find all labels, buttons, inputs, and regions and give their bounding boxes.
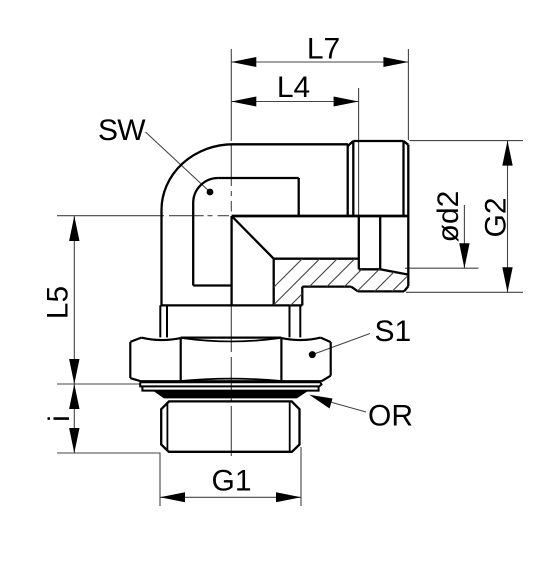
bottom edge	[141, 380, 322, 382]
retaining ring	[142, 386, 318, 390]
dimension L7	[231, 33, 408, 68]
svg-text:L7: L7	[307, 33, 340, 66]
extension line x=160 (G1 left)	[159, 454, 161, 507]
leg bore wall	[273, 259, 275, 306]
extension line x=301 (G1 right)	[300, 447, 302, 506]
runout chamfer bottom	[351, 287, 358, 292]
elbow body outer contour	[162, 144, 348, 305]
dimension L4	[231, 71, 358, 107]
right edge	[330, 342, 332, 376]
outer corner arc	[162, 144, 234, 210]
dimension L5	[42, 216, 80, 384]
nose top edge (thread OD)	[353, 140, 403, 142]
bottom-left corner chamfer	[130, 378, 140, 381]
dimension i	[43, 384, 80, 453]
counterbore bottom (od2)	[359, 268, 380, 270]
svg-text:L5: L5	[42, 286, 75, 319]
thread runout line	[352, 141, 354, 216]
extension line y=292.3 (G2 bottom)	[406, 291, 523, 293]
extension line x=408.4 (L7 right)	[407, 49, 409, 140]
left face top arc	[141, 338, 180, 340]
block bottom edge	[302, 285, 351, 287]
end face	[407, 145, 409, 286]
middle face bottom arc	[181, 379, 282, 381]
end chamfer bottom	[404, 286, 408, 291]
bottom-right corner chamfer	[322, 376, 331, 382]
face line left	[180, 338, 182, 381]
washer under nut	[140, 382, 321, 386]
hex locknut S1	[130, 338, 330, 382]
port bore wall	[274, 258, 359, 260]
extension line y=268.2 (od2)	[405, 267, 479, 269]
right face top arc	[281, 338, 320, 340]
body bottom edge	[161, 304, 303, 306]
right port nose (male thread end, external view upper half)	[348, 141, 409, 286]
elbow inner cutout	[193, 178, 299, 286]
top edge	[181, 337, 282, 339]
svg-text:i: i	[43, 415, 76, 422]
inner corner arc	[193, 178, 218, 203]
end chamfer line	[402, 141, 404, 216]
leader S1 with dot	[309, 315, 411, 358]
leader OR with arrow	[309, 395, 413, 433]
svg-text:G2: G2	[480, 197, 513, 237]
svg-text:OR: OR	[368, 400, 413, 433]
middle face top arc	[181, 338, 282, 342]
broken-out section boundary and bores	[232, 216, 409, 305]
svg-text:S1: S1	[375, 315, 412, 348]
svg-text:SW: SW	[98, 114, 146, 147]
svg-text:G1: G1	[211, 465, 251, 498]
left edge	[129, 342, 131, 378]
inner left edge	[192, 203, 194, 286]
lower edges of block and thread (section outline)	[161, 286, 409, 305]
block corner step	[301, 287, 303, 306]
adjustable stud thread between body and nut	[160, 305, 300, 337]
thread runout chamfer	[348, 141, 354, 146]
section boundary along port axis	[232, 215, 409, 218]
section boundary along leg axis	[230, 216, 232, 305]
face line right	[280, 338, 282, 381]
thread OD bottom	[358, 290, 404, 292]
centerline of right port (dashed) + L5 top extension line y=215.7	[57, 215, 229, 217]
extension line x=358.6 (L4 right)	[358, 88, 360, 215]
counterbore end face	[379, 216, 381, 269]
cutout bottom edge	[193, 284, 231, 286]
dimension G2	[480, 141, 513, 293]
svg-text:ød2: ød2	[432, 191, 465, 243]
extension line y=140.6 (G2 top)	[410, 140, 524, 142]
inner top edge	[218, 177, 299, 179]
leader SW with dot	[98, 114, 213, 195]
top-left corner chamfer	[130, 338, 141, 342]
thread minor line left	[166, 403, 168, 451]
top edge	[233, 143, 348, 145]
O-ring OR (black seal band)	[153, 391, 308, 399]
section hatching	[239, 227, 492, 322]
stud male thread G1	[161, 401, 299, 451]
bore intersection diagonal	[232, 216, 274, 259]
thread minor line right	[289, 403, 291, 451]
inner right edge	[298, 178, 300, 216]
extension line x=231.3 (top, leg axis)	[230, 49, 232, 141]
extension line y=384 (L5 bottom / i top)	[57, 383, 140, 385]
end chamfer	[404, 141, 409, 145]
left outer edge	[160, 210, 162, 305]
centerline of vertical leg (dashed)	[230, 144, 232, 456]
svg-text:L4: L4	[277, 71, 310, 104]
24 degree cone	[380, 269, 408, 274]
top-right corner chamfer	[321, 338, 331, 343]
counterbore step left	[358, 216, 360, 269]
block right face	[347, 144, 349, 215]
dimension G1	[160, 465, 301, 503]
dimension od2	[432, 191, 470, 269]
extension line y=453 (i bottom)	[57, 452, 161, 454]
